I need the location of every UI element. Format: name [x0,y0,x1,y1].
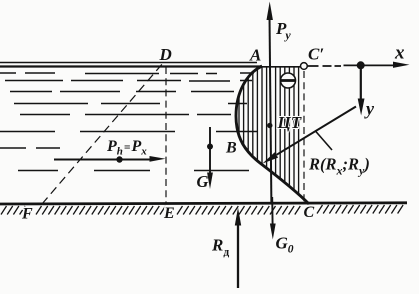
svg-text:G0: G0 [276,234,294,256]
water surface main line [0,65,262,67]
x axis segments right of C' [308,64,397,67]
svg-text:Rд: Rд [211,236,229,259]
curved face A-C [236,66,309,204]
svg-text:B: B [225,140,237,157]
svg-text:E: E [163,205,175,222]
water texture dashes row 1 [0,72,254,75]
weight arrow G_0 [270,197,276,240]
svg-text:Ph=Px: Ph=Px [106,138,147,158]
dashed vertical line D-E [165,67,167,204]
dashed vertical line C'-C [303,71,305,202]
dashed diagonal line F-D [42,63,163,204]
svg-text:F: F [21,206,33,223]
node dot on x axis [357,61,365,69]
circle-with-bar symbol [281,73,296,88]
svg-text:R(Rx;Ry): R(Rx;Ry) [308,155,370,178]
water texture dashes row 2 [5,80,252,83]
svg-text:C′: C′ [308,45,324,64]
leader line to R label [315,131,332,151]
y axis arrow [360,65,362,99]
water texture dashes row 7 [0,147,60,149]
axis P_y vertical line (through body down to ground) [270,16,272,204]
svg-text:x: x [394,43,405,64]
water surface thin upper line [0,62,257,64]
force arrow P_h = P_x [54,156,166,163]
force arrow G at B [207,127,213,189]
water texture dashes row 3 [10,91,234,93]
water texture dashes row 8 [18,170,249,172]
reaction arrow R_d [235,208,241,289]
arrowhead of P_y [267,2,273,21]
arrowhead of x axis [393,62,410,68]
open circle at C' [301,63,308,70]
resultant arrow R [263,107,357,164]
svg-text:C: C [304,204,315,221]
svg-text:Py: Py [275,19,291,42]
svg-text:D: D [159,45,172,64]
ground line [0,203,407,204]
svg-text:y: y [364,99,375,119]
water texture dashes row 4 [14,103,247,105]
svg-text:A: A [249,46,261,65]
svg-text:ЦТ: ЦТ [277,113,302,132]
line A to C' [262,66,300,68]
ground hatching [1,205,403,215]
svg-text:G: G [197,172,209,191]
water texture dashes row 6 [0,131,258,133]
centre of gravity dot [267,123,272,128]
water texture dashes row 5 [20,114,231,116]
vertical hatching of pressure body [239,60,299,210]
